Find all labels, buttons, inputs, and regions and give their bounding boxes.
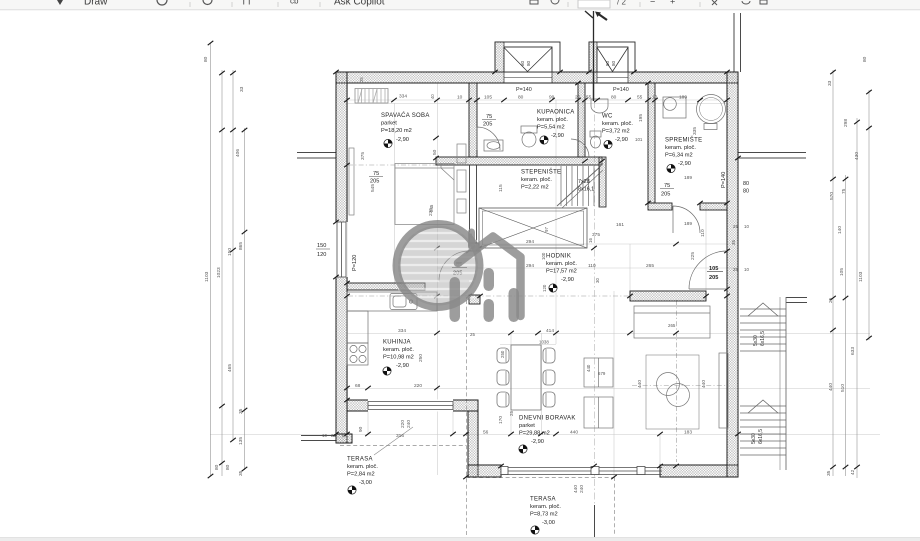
room label dnevni boravak (519, 416, 576, 446)
svg-text:150: 150 (317, 243, 326, 249)
svg-text:240: 240 (406, 420, 412, 428)
svg-text:56: 56 (483, 430, 489, 436)
wall top exterior (336, 72, 738, 83)
svg-text:keram. ploč.: keram. ploč. (521, 177, 552, 183)
svg-text:240: 240 (579, 485, 585, 493)
svg-text:keram. ploč.: keram. ploč. (602, 121, 633, 127)
chair right 3 (543, 392, 555, 407)
svg-text:80: 80 (605, 60, 610, 66)
dash-dot bedroom y165 (348, 164, 468, 166)
svg-text:1038: 1038 (539, 340, 549, 345)
svg-text:75: 75 (373, 171, 379, 177)
rug (646, 355, 699, 429)
tv sideboard lower (584, 397, 613, 428)
svg-text:465: 465 (227, 364, 233, 372)
svg-text:440: 440 (828, 383, 834, 391)
svg-text:99: 99 (549, 95, 555, 101)
watermark house outline (458, 237, 521, 317)
washing machine (663, 97, 686, 118)
chair left 2 (497, 370, 509, 385)
tv sideboard upper (584, 358, 613, 387)
stair break line (557, 166, 601, 206)
svg-text:110: 110 (588, 263, 596, 269)
section line middle dash-dot (594, 101, 596, 505)
svg-text:80: 80 (743, 189, 749, 195)
ext vertical x394 bed (394, 103, 396, 285)
wall spremiste bottom right piece (700, 203, 727, 210)
bed (395, 164, 454, 225)
svg-text:keram. ploč.: keram. ploč. (546, 261, 577, 267)
nightstand upper (457, 144, 466, 163)
level marker dnevni (519, 445, 527, 453)
svg-text:-2,90: -2,90 (561, 277, 574, 283)
svg-text:P=10,98 m2: P=10,98 m2 (383, 355, 414, 361)
level marker wc (604, 140, 612, 148)
toolbar right icons (530, 0, 538, 4)
room label wc (602, 114, 633, 144)
ext vertical x437 (437, 83, 439, 475)
door bedroom (439, 251, 469, 281)
svg-text:110: 110 (700, 229, 706, 237)
svg-text:33: 33 (239, 86, 245, 92)
svg-text:35: 35 (826, 470, 832, 476)
svg-text:440: 440 (570, 430, 578, 436)
svg-text:parket: parket (519, 423, 535, 429)
svg-text:keram. ploč.: keram. ploč. (383, 347, 414, 353)
room label terasa west (347, 457, 378, 487)
ext line table row (500, 344, 556, 346)
svg-text:245: 245 (429, 204, 434, 212)
svg-text:68: 68 (355, 383, 361, 389)
cabinet right of bed (457, 170, 466, 192)
sofa chaise right (719, 353, 728, 428)
wall wc/spremiste separator (648, 83, 655, 203)
svg-text:cb: cb (290, 0, 299, 6)
svg-text:P=2,84 m2: P=2,84 m2 (347, 472, 375, 478)
toolbar icon boxes (203, 0, 212, 5)
svg-text:80: 80 (520, 60, 525, 66)
chair right 1 (543, 348, 555, 363)
svg-text:101: 101 (635, 137, 643, 142)
svg-text:7x28: 7x28 (578, 179, 590, 185)
wall bedroom/kitchen separator (347, 283, 425, 290)
svg-text:P=140: P=140 (516, 87, 532, 93)
svg-text:10: 10 (322, 433, 327, 438)
right chain ticks (830, 70, 836, 74)
svg-text:SPAVAĆA SOBA: SPAVAĆA SOBA (381, 112, 430, 119)
svg-text:KUPAONICA: KUPAONICA (537, 110, 575, 116)
svg-text:25: 25 (733, 224, 738, 229)
wall bath/wc separator (578, 83, 585, 157)
svg-text:195: 195 (638, 114, 644, 122)
svg-text:25: 25 (828, 297, 834, 303)
svg-text:-3,00: -3,00 (542, 520, 555, 526)
svg-text:-3,00: -3,00 (359, 480, 372, 486)
svg-text:375: 375 (360, 152, 366, 160)
svg-text:Draw: Draw (84, 0, 108, 8)
svg-text:80: 80 (214, 464, 220, 470)
svg-text:6x16,5: 6x16,5 (760, 331, 766, 346)
svg-text:250: 250 (500, 350, 505, 358)
svg-text:SPREMIŠTE: SPREMIŠTE (665, 137, 702, 144)
svg-text:Ask Copilot: Ask Copilot (334, 0, 385, 8)
ext vertical x583 (582, 100, 584, 208)
ext vertical x511 (510, 333, 512, 434)
svg-text:183: 183 (684, 430, 692, 436)
svg-text:P=140: P=140 (613, 87, 629, 93)
svg-text:225: 225 (690, 252, 696, 260)
wall living bottom left piece (468, 465, 501, 477)
cabinet right lower (457, 199, 466, 213)
svg-text:80: 80 (611, 95, 617, 101)
svg-text:298: 298 (843, 119, 849, 127)
svg-text:80: 80 (518, 95, 524, 101)
ext vertical x786 stair edge (785, 297, 787, 470)
svg-text:DNEVNI BORAVAK: DNEVNI BORAVAK (519, 416, 576, 422)
dashed big terrace right (614, 477, 616, 536)
watermark column bar mid upper (484, 268, 495, 291)
ext line hodnik dim row (437, 267, 738, 269)
svg-text:WC: WC (602, 114, 613, 120)
svg-text:334: 334 (398, 328, 406, 334)
svg-text:35: 35 (238, 408, 244, 414)
svg-text:80: 80 (526, 60, 531, 66)
washbasin counter bath (484, 140, 503, 151)
watermark column bar mid lower (484, 299, 495, 322)
svg-text:25: 25 (733, 267, 738, 272)
svg-text:P=2,22 m2: P=2,22 m2 (521, 185, 549, 191)
room label hodnik (546, 254, 577, 284)
room label stepeniste (521, 169, 561, 191)
svg-text:105: 105 (839, 268, 845, 276)
svg-text:10: 10 (652, 95, 658, 101)
level marker hodnik (549, 284, 557, 292)
svg-text:80: 80 (225, 464, 231, 470)
svg-text:250: 250 (418, 354, 424, 362)
svg-text:keram. ploč.: keram. ploč. (537, 117, 568, 123)
ext vertical x556 (555, 100, 557, 344)
wall stepeniste east (599, 157, 606, 207)
wardrobe strip left wall (349, 148, 354, 215)
dining table (511, 345, 541, 410)
wall hodnik/living separator (630, 291, 706, 301)
svg-text:TERASA: TERASA (347, 457, 373, 463)
svg-text:P=17,57 m2: P=17,57 m2 (546, 269, 577, 275)
svg-text:105: 105 (709, 266, 718, 272)
svg-text:8x16,1: 8x16,1 (578, 187, 594, 193)
right chain labels (826, 56, 868, 476)
dashed small terrace right / big terrace left (466, 300, 468, 536)
svg-text:316: 316 (396, 433, 404, 439)
svg-text:161: 161 (616, 222, 624, 228)
svg-text:25: 25 (509, 411, 514, 416)
toolbar pen icon (57, 0, 63, 5)
svg-text:/ 2: / 2 (617, 0, 626, 7)
ext vertical x660 (659, 434, 661, 466)
svg-text:75: 75 (841, 188, 847, 194)
stove (347, 343, 368, 365)
svg-text:-2,90: -2,90 (615, 137, 628, 143)
svg-text:25: 25 (575, 95, 581, 101)
wall pier at bedroom door (469, 243, 479, 251)
svg-text:80: 80 (611, 60, 616, 66)
svg-text:-2,90: -2,90 (551, 133, 564, 139)
svg-text:120: 120 (317, 252, 326, 258)
watermark globe circle (398, 226, 478, 306)
svg-text:30: 30 (595, 278, 600, 283)
svg-text:33: 33 (827, 80, 833, 86)
boundary wall above top-right corner (733, 13, 735, 72)
svg-text:40: 40 (430, 94, 435, 99)
svg-text:335: 335 (692, 127, 698, 135)
svg-text:633: 633 (850, 347, 856, 355)
svg-text:205: 205 (709, 275, 718, 281)
ext vertical x614 (613, 291, 615, 477)
dash-dot hodnik/kitchen boundary y296 (348, 295, 630, 297)
section line bottom segment (594, 505, 596, 537)
svg-text:440: 440 (586, 364, 591, 372)
svg-text:keram. ploč.: keram. ploč. (665, 145, 696, 151)
kitchen sink (390, 294, 417, 310)
svg-text:5x30: 5x30 (753, 335, 759, 346)
room label kupaonica (537, 110, 575, 140)
stub right at stair (786, 297, 807, 299)
svg-text:189: 189 (684, 221, 692, 227)
svg-text:406: 406 (235, 149, 241, 157)
svg-text:10: 10 (457, 95, 463, 101)
ext line mid living (347, 388, 870, 390)
svg-text:-2,90: -2,90 (531, 439, 544, 445)
svg-text:430: 430 (854, 152, 860, 160)
kitchen counter left run (347, 311, 368, 343)
svg-text:16: 16 (588, 238, 593, 243)
svg-text:80: 80 (743, 181, 749, 187)
svg-text:120: 120 (542, 284, 547, 292)
svg-text:HODNIK: HODNIK (546, 254, 571, 260)
svg-text:P=120: P=120 (352, 255, 358, 271)
svg-text:1023: 1023 (216, 267, 222, 278)
svg-text:35: 35 (238, 470, 244, 476)
svg-text:334: 334 (399, 94, 407, 100)
svg-text:135: 135 (238, 437, 244, 445)
svg-text:parket: parket (381, 121, 397, 127)
wall left exterior (336, 72, 347, 443)
svg-text:294: 294 (526, 239, 534, 245)
svg-text:80: 80 (203, 56, 209, 62)
watermark house chimney (468, 232, 475, 246)
svg-text:80: 80 (862, 56, 868, 62)
wall bath/stepeniste bottom (436, 157, 602, 165)
ext vertical x347 (347, 83, 349, 434)
svg-text:440: 440 (573, 485, 579, 493)
svg-text:55: 55 (586, 95, 592, 101)
svg-text:375: 375 (592, 232, 600, 238)
svg-text:90: 90 (358, 426, 364, 432)
level marker spavaca (384, 139, 392, 147)
watermark column bar right (509, 288, 520, 322)
svg-text:414: 414 (546, 328, 554, 334)
svg-text:1103: 1103 (204, 271, 210, 282)
svg-text:-2,90: -2,90 (396, 363, 409, 369)
door entrance east (689, 251, 727, 289)
svg-text:105: 105 (484, 95, 492, 101)
kitchen counter top run (347, 292, 437, 311)
svg-text:25: 25 (470, 332, 475, 337)
section line top segment (593, 11, 595, 101)
svg-text:10: 10 (744, 224, 749, 229)
svg-text:170: 170 (498, 416, 504, 424)
toolbar eraser icon (157, 0, 167, 5)
svg-text:6x16,5: 6x16,5 (758, 429, 764, 444)
ext vertical x648 (647, 100, 649, 203)
ext line bottom dim row (210, 434, 880, 436)
svg-text:115: 115 (498, 184, 504, 192)
level marker terasa west (348, 486, 356, 494)
wall bedroom east thin double line (470, 165, 477, 243)
svg-text:P=140: P=140 (721, 172, 727, 188)
svg-text:P=3,72 m2: P=3,72 m2 (602, 129, 630, 135)
svg-text:100: 100 (541, 252, 546, 260)
ext vertical x541 (541, 333, 543, 434)
level marker kuhinja (383, 367, 391, 375)
ext vertical x706 (705, 203, 707, 291)
room label kuhinja (383, 340, 414, 370)
svg-text:265: 265 (646, 263, 654, 269)
level marker terasa south (531, 526, 539, 534)
svg-text:5x30: 5x30 (751, 433, 757, 444)
svg-text:STEPENIŠTE: STEPENIŠTE (521, 169, 561, 176)
svg-text:35: 35 (731, 240, 736, 245)
door wc (571, 139, 589, 157)
svg-text:220: 220 (400, 420, 406, 428)
svg-text:75: 75 (486, 114, 492, 120)
svg-text:50: 50 (432, 149, 438, 155)
wall spremiste bottom left piece (648, 203, 672, 210)
svg-text:P=6,34 m2: P=6,34 m2 (665, 153, 693, 159)
svg-text:P=29,88 m2: P=29,88 m2 (519, 431, 550, 437)
svg-text:P=18,20 m2: P=18,20 m2 (381, 128, 412, 134)
svg-text:-2,90: -2,90 (678, 161, 691, 167)
section line overlay through wall (593, 42, 595, 101)
toilet wc (590, 131, 601, 137)
svg-text:545: 545 (370, 184, 376, 192)
watermark column bar left (450, 277, 461, 322)
svg-text:440: 440 (637, 380, 643, 388)
svg-text:205: 205 (661, 192, 670, 198)
wall living bottom right piece (660, 465, 738, 477)
dashed small terrace bottom (340, 445, 466, 447)
wall living west (468, 411, 478, 477)
left chain labels (203, 56, 245, 476)
section line arrow slash (585, 11, 593, 18)
dash-dot living centre vertical (676, 300, 678, 462)
room label spremiste (665, 137, 702, 168)
stub right of building (738, 152, 806, 154)
room label spavaca soba (381, 112, 430, 143)
wall kitchen bottom (347, 400, 478, 411)
svg-text:189: 189 (679, 95, 687, 101)
svg-text:10: 10 (744, 267, 749, 272)
svg-text:150: 150 (227, 248, 233, 256)
svg-text:+: + (670, 0, 675, 7)
svg-text:KUHINJA: KUHINJA (383, 340, 411, 346)
wardrobe top with hangers (355, 89, 388, 104)
door spremiste (673, 206, 700, 233)
chair right 2 (543, 370, 555, 385)
washbasin wc (591, 99, 608, 113)
ext line bedroom top (348, 103, 727, 105)
wall bedroom/bath west of bathroom (469, 83, 477, 157)
boiler tank (697, 95, 726, 124)
svg-text:679: 679 (598, 371, 606, 376)
toilet bath (521, 126, 537, 133)
stair treads (560, 166, 562, 206)
sofa (634, 306, 710, 338)
bottom page-gap strip (0, 538, 920, 541)
svg-text:−: − (650, 0, 655, 7)
level marker spremiste (667, 164, 675, 172)
svg-text:265: 265 (668, 323, 676, 328)
door bathroom (477, 127, 500, 150)
ext vertical x368 (367, 403, 369, 435)
svg-text:205: 205 (370, 179, 379, 185)
leader line terasa west (374, 427, 413, 455)
chair left 1 (497, 348, 509, 363)
svg-text:75: 75 (664, 183, 670, 189)
stub left of building (297, 152, 336, 154)
ext vertical x453 (452, 400, 454, 435)
svg-text:42: 42 (850, 469, 856, 475)
svg-text:1103: 1103 (858, 271, 864, 282)
browser toolbar sliver (cut off at top) (0, 0, 920, 10)
svg-text:P=5,54 m2: P=5,54 m2 (537, 125, 565, 131)
svg-text:205: 205 (483, 122, 492, 128)
chair left 3 (497, 392, 509, 407)
ext vertical x630 (629, 244, 631, 291)
svg-text:865: 865 (238, 242, 244, 250)
svg-text:140: 140 (837, 226, 843, 234)
svg-text:TERASA: TERASA (530, 497, 556, 503)
ext line living top row (347, 333, 870, 335)
svg-text:25: 25 (331, 433, 336, 438)
left chain ticks (208, 41, 214, 45)
level marker kupaonica (540, 136, 548, 144)
svg-text:220: 220 (414, 383, 422, 389)
ext line 294 row (479, 243, 730, 245)
svg-text:keram. ploč.: keram. ploč. (347, 464, 378, 470)
svg-text:25: 25 (359, 77, 364, 82)
wall right exterior (727, 72, 738, 477)
svg-text:TT: TT (241, 0, 252, 7)
wall left foot at terrace (336, 434, 352, 443)
svg-text:keram. ploč.: keram. ploč. (530, 504, 561, 510)
svg-text:55: 55 (637, 95, 643, 101)
dash-dot living centre horizontal (632, 385, 726, 387)
wall pier kitchen/dining (469, 295, 480, 304)
dashed big terrace top (466, 477, 614, 479)
svg-text:189: 189 (684, 175, 692, 181)
svg-text:510: 510 (840, 384, 846, 392)
svg-text:P=8,73 m2: P=8,73 m2 (530, 512, 558, 518)
stub left at terrace foot (301, 435, 336, 437)
ext line top dim row (348, 99, 727, 101)
coffee table circles (657, 373, 680, 396)
svg-text:440: 440 (701, 380, 707, 388)
room label terasa south (530, 497, 561, 527)
svg-text:294: 294 (526, 263, 534, 269)
svg-text:570: 570 (829, 192, 835, 200)
stair opening crossed rect (479, 208, 587, 248)
